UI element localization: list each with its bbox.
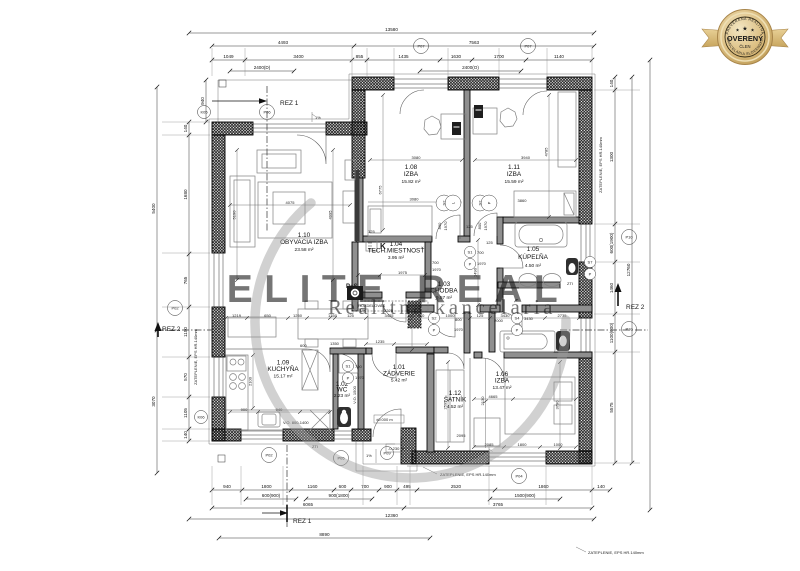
svg-text:855: 855 (356, 54, 364, 59)
svg-text:600(1900): 600(1900) (609, 232, 614, 253)
dimension chains around the plan (151, 27, 652, 540)
svg-text:P10: P10 (625, 327, 633, 332)
interior wall: tech room bottom (352, 292, 382, 298)
furniture: room 1.08 bed, desk, chair, PC (368, 206, 432, 236)
insulation outline around building (209, 74, 595, 466)
svg-text:REZ 1: REZ 1 (293, 518, 312, 525)
svg-text:P: P (469, 261, 472, 266)
svg-text:S2: S2 (477, 200, 482, 206)
interior wall: hallway / satnik vertical (464, 312, 470, 353)
svg-text:ZATEPLENIE, EPS HR.140mm: ZATEPLENIE, EPS HR.140mm (193, 328, 198, 384)
svg-text:1500(900): 1500(900) (515, 493, 536, 498)
svg-text:2400(O): 2400(O) (462, 65, 479, 70)
svg-text:7563: 7563 (469, 40, 480, 45)
svg-text:4995: 4995 (328, 210, 333, 220)
svg-text:1800: 1800 (261, 484, 272, 489)
svg-text:1140: 1140 (554, 54, 564, 59)
furniture: living room sofa set, coffee table, TV wall (257, 150, 301, 173)
svg-text:600: 600 (339, 484, 347, 489)
svg-text:125: 125 (466, 224, 473, 229)
svg-text:1235: 1235 (376, 339, 386, 344)
svg-text:1.10: 1.10 (298, 232, 311, 239)
interior wall: kitchen/WC north (330, 348, 366, 354)
svg-text:1150: 1150 (183, 327, 188, 337)
svg-text:-0.230 m: -0.230 m (388, 446, 404, 451)
svg-text:1160: 1160 (308, 484, 318, 489)
svg-text:1700: 1700 (494, 54, 505, 59)
svg-text:6065: 6065 (303, 502, 314, 507)
svg-text:OBYVACIA IZBA: OBYVACIA IZBA (280, 239, 329, 246)
svg-text:KUCHYŇA: KUCHYŇA (267, 364, 299, 373)
svg-text:5190: 5190 (232, 210, 237, 220)
svg-text:3765: 3765 (493, 502, 504, 507)
svg-text:P02: P02 (265, 453, 273, 458)
svg-text:1630: 1630 (451, 54, 462, 59)
svg-text:1300: 1300 (609, 151, 614, 162)
svg-text:125: 125 (486, 240, 493, 245)
svg-text:S1: S1 (468, 249, 474, 254)
furniture: room 1.06 bed with pillows, wardrobe (505, 377, 575, 434)
svg-text:P: P (433, 327, 436, 332)
svg-text:1350: 1350 (330, 341, 340, 346)
svg-text:V.O. 1500: V.O. 1500 (352, 385, 357, 403)
svg-text:★: ★ (742, 26, 747, 33)
interior wall: hallway south (407, 305, 434, 312)
svg-text:K: K (380, 242, 386, 251)
level labels (374, 415, 404, 423)
svg-text:P10: P10 (625, 235, 633, 240)
exterior wall: bottom left (kitchen/WC) with window and entrance door (212, 429, 371, 441)
svg-text:ZATEPLENIE, EPS HR.140mm: ZATEPLENIE, EPS HR.140mm (598, 136, 603, 192)
furniture: bathroom 1.05 bathtub, sinks, toilet (515, 222, 567, 247)
svg-text:IZBA: IZBA (507, 171, 522, 178)
svg-text:800: 800 (477, 222, 482, 229)
svg-text:13580: 13580 (385, 27, 398, 32)
svg-text:K06: K06 (197, 415, 205, 420)
svg-text:OVERENÝ: OVERENÝ (727, 34, 763, 43)
svg-text:1219: 1219 (232, 313, 242, 318)
porch outline and section markers (218, 80, 352, 122)
svg-text:600: 600 (300, 343, 307, 348)
svg-text:1800: 1800 (518, 442, 528, 447)
svg-text:3790: 3790 (555, 400, 560, 410)
interior wall: living room / tech room (352, 242, 358, 311)
svg-text:1435: 1435 (398, 54, 409, 59)
svg-text:3940: 3940 (521, 155, 531, 160)
svg-text:P02: P02 (171, 306, 179, 311)
svg-text:4493: 4493 (278, 40, 289, 45)
interior wall: room 1.08 / room 1.11 divider (464, 90, 470, 236)
svg-text:1970: 1970 (355, 375, 365, 380)
svg-text:650: 650 (264, 313, 271, 318)
svg-text:600(900): 600(900) (262, 493, 281, 498)
furniture: WC toilet (337, 407, 351, 427)
furniture: satnik wardrobe (436, 370, 464, 442)
svg-text:1000: 1000 (554, 442, 564, 447)
svg-text:REZ 2: REZ 2 (162, 326, 181, 333)
gold OVERENY badge with ribbons (702, 29, 729, 47)
furniture: room 1.11 bed, desk, chair, PC, wardrobe (514, 191, 576, 217)
exterior wall: left, with two window openings (212, 135, 225, 441)
svg-text:Realitná kancelária: Realitná kancelária (328, 295, 556, 319)
svg-text:P: P (516, 327, 519, 332)
svg-text:2520: 2520 (451, 484, 462, 489)
svg-text:4075: 4075 (286, 200, 296, 205)
svg-text:700: 700 (355, 364, 362, 369)
interior wall: WC right / zadverie (358, 354, 364, 429)
svg-text:1105: 1105 (183, 408, 188, 418)
svg-text:700: 700 (361, 484, 369, 489)
svg-text:5575: 5575 (609, 402, 614, 413)
svg-text:900(1800): 900(1800) (329, 493, 350, 498)
svg-text:P09: P09 (383, 451, 391, 456)
svg-text:K05: K05 (200, 110, 208, 115)
furniture: lower bathroom bathtub, washbasin, towel radiator (500, 331, 555, 352)
svg-text:1460: 1460 (609, 282, 614, 293)
svg-text:TECH.MIESTNOSŤ: TECH.MIESTNOSŤ (368, 246, 425, 255)
svg-text:S7: S7 (588, 259, 594, 264)
REZ2 right (560, 329, 648, 331)
svg-text:5.42 m²: 5.42 m² (391, 378, 408, 384)
svg-text:ZATEPLENIE, EPS HR.140mm: ZATEPLENIE, EPS HR.140mm (588, 550, 644, 555)
svg-text:REZ 1: REZ 1 (280, 100, 299, 107)
svg-text:1250: 1250 (293, 313, 303, 318)
svg-text:±0.000 m: ±0.000 m (376, 417, 393, 422)
interior wall: living room / room 1.08 (TV wall) (356, 178, 363, 242)
P circles top/bottom (414, 39, 429, 54)
svg-text:12760: 12760 (626, 263, 631, 276)
svg-text:1%: 1% (315, 115, 321, 120)
entrance platform (356, 441, 417, 471)
door arcs: terrace door, room doors, bathroom, WC, entrance (297, 135, 326, 164)
REZ1 bottom (286, 445, 288, 528)
interior dimension chains, spec circles and small annotations (162, 48, 640, 505)
svg-text:5400: 5400 (151, 203, 156, 214)
svg-text:15.17 m²: 15.17 m² (274, 374, 293, 380)
svg-text:140: 140 (183, 124, 188, 132)
svg-text:P04: P04 (515, 474, 523, 479)
svg-text:ZÁDVERIE: ZÁDVERIE (383, 369, 415, 378)
svg-text:P07: P07 (524, 44, 532, 49)
svg-text:3080: 3080 (410, 197, 420, 202)
svg-text:15.82 m²: 15.82 m² (402, 179, 421, 185)
svg-text:4.52 m²: 4.52 m² (447, 404, 464, 410)
svg-text:140: 140 (183, 431, 188, 439)
svg-text:570: 570 (183, 373, 188, 381)
svg-text:2595: 2595 (443, 400, 448, 410)
svg-text:765: 765 (183, 276, 188, 284)
svg-text:ČLEN: ČLEN (739, 44, 750, 49)
svg-text:P: P (486, 201, 491, 204)
svg-text:2400(D): 2400(D) (254, 65, 271, 70)
svg-text:900: 900 (241, 407, 248, 412)
svg-text:940: 940 (223, 484, 231, 489)
svg-text:800: 800 (437, 222, 442, 229)
svg-text:900: 900 (384, 484, 392, 489)
svg-text:3070: 3070 (151, 396, 156, 407)
svg-text:4665: 4665 (489, 394, 499, 399)
svg-text:1.11: 1.11 (508, 164, 520, 171)
interior wall: tech room right (425, 242, 431, 298)
REZ2 left (157, 329, 212, 331)
watermark: ELITE REAL logo arc and texts (255, 203, 566, 478)
interior wall: room 1.08 bottom (363, 236, 432, 242)
svg-text:2095: 2095 (457, 433, 467, 438)
interior wall: bathroom vanity wall (498, 282, 560, 288)
top wall segs (352, 77, 592, 90)
svg-text:3860: 3860 (518, 198, 528, 203)
interior wall: bathroom left below door (497, 268, 503, 312)
svg-text:1680: 1680 (183, 189, 188, 200)
svg-text:1.05: 1.05 (527, 246, 540, 253)
svg-text:S1: S1 (346, 363, 352, 368)
exterior wall: bottom right (room 1.06) with window (412, 451, 592, 464)
svg-text:IZBA: IZBA (404, 171, 419, 178)
svg-text:1970: 1970 (483, 221, 488, 231)
svg-text:140: 140 (609, 79, 614, 87)
svg-text:2130: 2130 (480, 396, 485, 406)
svg-text:P07: P07 (417, 44, 425, 49)
svg-text:P06: P06 (263, 110, 271, 115)
interior wall: room 1.11 / bathroom 1.05 (503, 217, 579, 223)
svg-text:KÚPEĽŇA: KÚPEĽŇA (518, 252, 549, 261)
svg-text:1100(600): 1100(600) (609, 322, 614, 343)
svg-text:6775: 6775 (378, 185, 383, 195)
svg-text:1970: 1970 (443, 221, 448, 231)
furniture: kitchen counters, cooktop, sink (226, 355, 248, 430)
svg-text:23.58 m²: 23.58 m² (295, 247, 314, 253)
svg-text:1%: 1% (366, 453, 372, 458)
svg-text:3.95 m²: 3.95 m² (388, 255, 405, 261)
svg-text:2.23 m²: 2.23 m² (334, 393, 351, 399)
svg-text:3080: 3080 (412, 155, 422, 160)
svg-text:700: 700 (432, 260, 439, 265)
svg-text:2100: 2100 (248, 376, 253, 386)
svg-text:3400: 3400 (293, 54, 304, 59)
svg-text:IZBA: IZBA (495, 378, 510, 385)
svg-text:4785: 4785 (544, 147, 549, 157)
interior wall: room 1.06 north (504, 352, 592, 358)
exterior wall: right, with two window openings (579, 90, 592, 463)
svg-text:S2: S2 (441, 200, 446, 206)
svg-text:1970: 1970 (477, 261, 487, 266)
svg-text:1860: 1860 (538, 484, 549, 489)
svg-text:WC: WC (337, 387, 348, 394)
svg-text:REZ 2: REZ 2 (626, 304, 645, 311)
svg-text:1970: 1970 (454, 327, 464, 332)
exterior wall: step at entrance (401, 428, 416, 464)
svg-text:125: 125 (368, 229, 375, 234)
svg-text:2085: 2085 (485, 442, 495, 447)
svg-text:P: P (347, 375, 350, 380)
exterior wall: connector between living room and room 1.08 (352, 90, 365, 178)
svg-text:15.59 m²: 15.59 m² (505, 179, 524, 185)
exterior wall: living room top with terrace door opening (212, 122, 367, 135)
interior wall: WC left (333, 354, 338, 429)
svg-text:700: 700 (477, 250, 484, 255)
svg-text:140: 140 (597, 484, 605, 489)
svg-text:8890: 8890 (319, 532, 330, 537)
svg-text:1.08: 1.08 (405, 164, 418, 171)
svg-text:12360: 12360 (385, 513, 398, 518)
svg-text:P: P (589, 271, 592, 276)
svg-text:940: 940 (200, 97, 205, 105)
svg-text:1049: 1049 (223, 54, 234, 59)
interior wall: zadverie / satnik divider (427, 354, 434, 452)
svg-text:13.47 m²: 13.47 m² (493, 385, 512, 391)
furniture: dining table with chairs, kitchen island (298, 309, 368, 339)
furniture: tech room boiler K and washer P+S (366, 240, 377, 251)
